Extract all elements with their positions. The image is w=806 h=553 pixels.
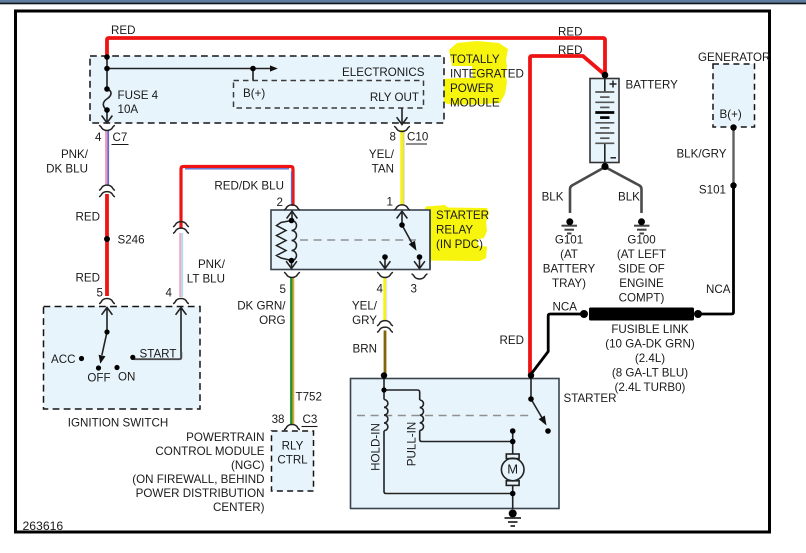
svg-text:RLY OUT: RLY OUT (370, 91, 419, 104)
svg-text:NCA: NCA (553, 301, 578, 314)
svg-text:POWER: POWER (450, 82, 494, 95)
svg-text:T752: T752 (296, 391, 322, 404)
svg-text:RED: RED (558, 26, 582, 39)
svg-text:3: 3 (411, 283, 417, 296)
svg-text:FUSIBLE LINK: FUSIBLE LINK (611, 323, 689, 336)
svg-text:NCA: NCA (706, 283, 731, 296)
svg-text:4: 4 (95, 131, 102, 144)
svg-text:GENERATOR: GENERATOR (698, 51, 770, 64)
svg-text:C10: C10 (407, 131, 428, 144)
svg-text:BRN: BRN (353, 343, 377, 356)
svg-text:4: 4 (377, 283, 384, 296)
svg-text:B(+): B(+) (243, 87, 265, 100)
svg-text:(10 GA-DK GRN): (10 GA-DK GRN) (605, 338, 695, 351)
svg-text:SIDE OF: SIDE OF (618, 263, 664, 276)
svg-text:COMPT): COMPT) (619, 292, 665, 305)
svg-text:TOTALLY: TOTALLY (450, 53, 500, 66)
svg-text:G100: G100 (627, 234, 655, 247)
svg-text:CONTROL MODULE: CONTROL MODULE (155, 445, 264, 458)
svg-text:(2.4L TURB0): (2.4L TURB0) (615, 381, 686, 394)
svg-text:TAN: TAN (372, 163, 394, 176)
svg-text:YEL/: YEL/ (352, 300, 378, 313)
svg-text:S246: S246 (118, 234, 145, 247)
svg-text:RED: RED (76, 211, 100, 224)
svg-text:PULL-IN: PULL-IN (406, 422, 419, 466)
svg-text:RLY: RLY (282, 440, 304, 453)
svg-text:CTRL: CTRL (277, 454, 308, 467)
svg-text:MODULE: MODULE (450, 97, 500, 110)
svg-text:263616: 263616 (23, 519, 64, 533)
svg-text:G101: G101 (555, 234, 583, 247)
svg-text:IGNITION SWITCH: IGNITION SWITCH (68, 417, 168, 430)
svg-text:M: M (507, 462, 518, 477)
svg-text:(AT LEFT: (AT LEFT (617, 248, 666, 261)
svg-text:4: 4 (166, 287, 173, 300)
svg-text:2: 2 (277, 196, 283, 209)
svg-text:ACC: ACC (51, 353, 75, 366)
svg-text:ENGINE: ENGINE (619, 277, 664, 290)
svg-text:FUSE 4: FUSE 4 (118, 89, 159, 102)
svg-text:C3: C3 (303, 413, 318, 426)
svg-text:HOLD-IN: HOLD-IN (370, 423, 383, 471)
svg-text:8: 8 (390, 131, 396, 144)
svg-text:OFF: OFF (87, 372, 110, 385)
svg-text:TRAY): TRAY) (552, 277, 586, 290)
svg-text:STARTER: STARTER (564, 392, 617, 405)
svg-text:DK BLU: DK BLU (46, 163, 88, 176)
svg-text:(NGC): (NGC) (231, 459, 265, 472)
svg-text:ORG: ORG (259, 314, 285, 327)
svg-text:CENTER): CENTER) (213, 501, 265, 514)
svg-text:(AT: (AT (560, 248, 578, 261)
svg-text:(ON FIREWALL, BEHIND: (ON FIREWALL, BEHIND (132, 473, 264, 486)
svg-text:DK GRN/: DK GRN/ (237, 300, 286, 313)
svg-text:PNK/: PNK/ (198, 258, 226, 271)
svg-text:5: 5 (97, 287, 103, 300)
svg-text:LT BLU: LT BLU (187, 273, 225, 286)
svg-text:38: 38 (272, 413, 285, 426)
svg-text:(2.4L): (2.4L) (635, 352, 665, 365)
svg-text:START: START (140, 348, 177, 361)
svg-text:S101: S101 (699, 184, 726, 197)
svg-text:5: 5 (280, 283, 286, 296)
svg-text:BATTERY: BATTERY (543, 263, 596, 276)
svg-text:GRY: GRY (352, 314, 377, 327)
svg-text:RED: RED (76, 272, 100, 285)
svg-text:POWERTRAIN: POWERTRAIN (186, 431, 264, 444)
svg-text:C7: C7 (113, 131, 128, 144)
svg-text:STARTER: STARTER (436, 209, 489, 222)
svg-text:ELECTRONICS: ELECTRONICS (342, 66, 425, 79)
svg-text:ON: ON (118, 371, 135, 384)
svg-text:RED: RED (111, 24, 135, 37)
svg-text:INTEGRATED: INTEGRATED (450, 68, 524, 81)
svg-text:B(+): B(+) (720, 108, 742, 121)
svg-text:10A: 10A (118, 103, 139, 116)
svg-text:BLK: BLK (618, 191, 640, 204)
svg-text:1: 1 (387, 196, 393, 209)
svg-text:RED: RED (558, 44, 582, 57)
svg-text:RED: RED (500, 334, 524, 347)
svg-text:BLK: BLK (542, 191, 564, 204)
svg-text:YEL/: YEL/ (369, 148, 395, 161)
svg-text:BLK/GRY: BLK/GRY (676, 148, 726, 161)
svg-text:RELAY: RELAY (436, 224, 473, 237)
svg-text:RED/DK BLU: RED/DK BLU (214, 180, 284, 193)
svg-text:POWER DISTRIBUTION: POWER DISTRIBUTION (136, 487, 265, 500)
svg-text:(8 GA-LT BLU): (8 GA-LT BLU) (612, 367, 688, 380)
svg-text:(IN PDC): (IN PDC) (436, 238, 483, 251)
svg-text:BATTERY: BATTERY (626, 79, 679, 92)
svg-text:PNK/: PNK/ (61, 148, 89, 161)
